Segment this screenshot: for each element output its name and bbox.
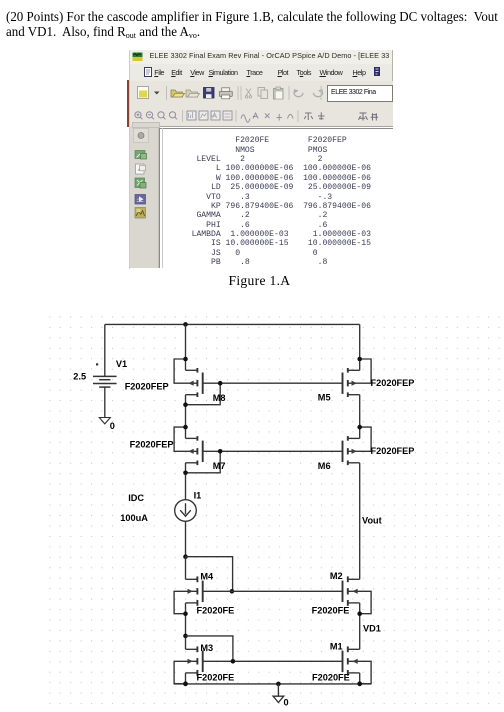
node: rail junction at M8 drain (183, 322, 188, 327)
transistor M8 (F2020FEP PMOS) (174, 357, 222, 407)
PSpice window screenshot (129, 50, 393, 269)
transistor M2 (F2020FE NMOS) (343, 576, 372, 616)
transistor M6 (F2020FEP PMOS) (343, 425, 372, 465)
wire M3 source to ground rail (185, 673, 187, 684)
svg-text:V1: V1 (116, 359, 127, 369)
figure caption (229, 273, 291, 289)
wire ground rail (174, 683, 371, 685)
wire M4/M2 gate net (203, 590, 343, 592)
svg-text:F2020FE: F2020FE (197, 605, 235, 615)
wire M5 source to M6 drain (359, 395, 361, 439)
page (output text area) (159, 128, 393, 129)
svg-text:IDC: IDC (128, 493, 144, 503)
ground 0 under V1 (99, 418, 110, 424)
svg-text:2.5: 2.5 (73, 371, 86, 381)
transistor M5 (F2020FEP PMOS) (343, 357, 372, 397)
svg-text:F2020FEP: F2020FEP (371, 446, 415, 456)
wire M1 source to ground rail (359, 673, 361, 684)
wire M7/M6 gate net (203, 450, 343, 452)
svg-text:Vout: Vout (362, 516, 382, 526)
transistor M4 (F2020FE NMOS) (174, 576, 203, 616)
svg-text:F2020FE: F2020FE (312, 672, 350, 682)
svg-text:VD1: VD1 (363, 623, 381, 633)
wire I1 to M4 drain node (185, 521, 187, 556)
svg-text:M5: M5 (318, 392, 331, 402)
wire M3/M1 gate net (203, 660, 343, 662)
svg-text:F2020FEP: F2020FEP (130, 440, 174, 450)
svg-text:100uA: 100uA (120, 513, 148, 523)
wire link to M3/M1 gate net (186, 636, 233, 661)
svg-text:M4: M4 (200, 571, 214, 581)
voltage source V1 2.5V (93, 324, 117, 417)
wire M8 drain to rail (185, 324, 187, 370)
wire M5 drain to rail (359, 324, 361, 370)
svg-text:F2020FEP: F2020FEP (125, 382, 169, 392)
wire M4 drain (185, 557, 187, 580)
svg-text:F2020FE: F2020FE (312, 605, 350, 615)
wire: VDD top rail (105, 323, 360, 325)
transistor M3 (F2020FE NMOS) (174, 646, 203, 686)
wire M7 source to I1 (185, 463, 187, 500)
wire M2 drain (Vout) from M6 source (359, 463, 361, 580)
svg-text:M6: M6 (318, 461, 331, 471)
svg-text:M3: M3 (200, 643, 213, 653)
svg-text:F2020FEP: F2020FEP (371, 378, 415, 388)
wire M4 source to M3 drain (185, 603, 187, 649)
svg-text:F2020FE: F2020FE (197, 672, 235, 682)
transistor M1 (F2020FE NMOS) (343, 646, 372, 686)
node M3 source rail node (183, 682, 188, 687)
question text (6, 9, 504, 42)
transistor M7 (F2020FEP PMOS) (174, 425, 222, 475)
node I1/M4/bias junction (183, 554, 188, 559)
svg-text:M7: M7 (213, 461, 226, 471)
svg-text:M1: M1 (330, 641, 343, 651)
svg-text:0: 0 (110, 421, 115, 431)
wire M2 source to M1 drain (VD1) (359, 603, 361, 649)
current source I1 IDC 100uA (175, 500, 197, 522)
node gate-net junction row3 (230, 589, 235, 594)
node M4 source node link (183, 634, 188, 639)
svg-text:M2: M2 (330, 571, 343, 581)
svg-text:I1: I1 (194, 491, 202, 501)
wire bias tap to M4/M2 gate net (186, 557, 233, 592)
wire M8/M5 gate net (203, 382, 343, 384)
node M1 source rail node (357, 682, 362, 687)
node ground rail node (276, 682, 281, 687)
svg-text:0: 0 (284, 698, 289, 708)
node gate-net junction row4 (231, 659, 236, 664)
svg-text:M8: M8 (213, 393, 226, 403)
wire M8 source to M7 drain (185, 395, 187, 439)
ground 0 at bottom rail (273, 684, 284, 703)
